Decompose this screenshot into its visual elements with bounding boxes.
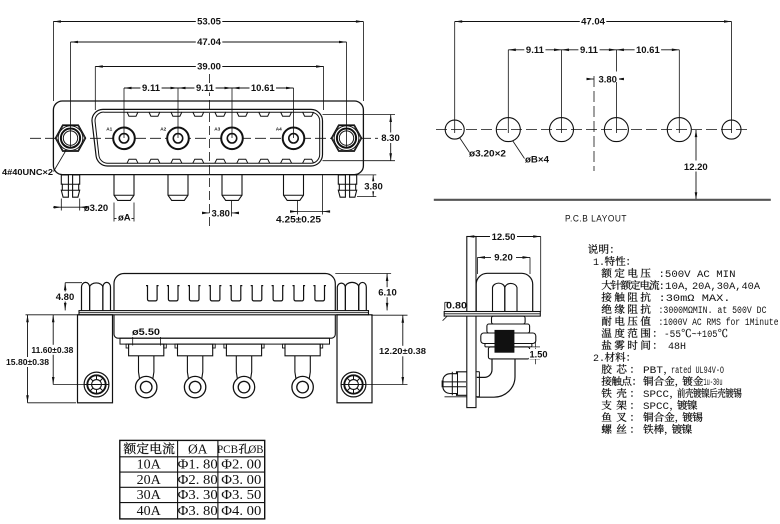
pcb hole B1 xyxy=(496,118,520,142)
power contact A3 with label xyxy=(221,128,243,150)
side view pin 4 with solder eye xyxy=(285,344,320,356)
svg-text:3.80: 3.80 xyxy=(364,182,383,193)
svg-text:30A: 30A xyxy=(137,488,162,503)
dimension 3.80 right fork xyxy=(357,174,376,176)
svg-text:11.60±0.38: 11.60±0.38 xyxy=(31,345,73,355)
svg-text::500V AC MIN: :500V AC MIN xyxy=(659,270,736,281)
svg-text:ø5.50: ø5.50 xyxy=(132,327,160,338)
power contact A4 with label xyxy=(283,128,305,150)
svg-text:4.25±0.25: 4.25±0.25 xyxy=(276,214,322,225)
svg-text:15.80±0.38: 15.80±0.38 xyxy=(6,357,49,367)
pcb mounting hole left xyxy=(445,120,464,139)
svg-text:SPCC: SPCC xyxy=(643,390,669,401)
svg-text:A1: A1 xyxy=(106,127,112,132)
side view contact slot 1 xyxy=(146,286,159,301)
side view insulator lip xyxy=(120,338,330,344)
side view pin 3 with solder eye xyxy=(226,344,261,356)
solder pin below contact at x=178.0 (front view) xyxy=(168,175,188,201)
svg-text:Φ2. 80: Φ2. 80 xyxy=(178,472,218,487)
dimension diameter A under first pin xyxy=(113,203,115,222)
dimension 12.20 +-0.38 right xyxy=(371,314,408,316)
svg-text:PBT: PBT xyxy=(643,366,663,377)
table current rating xyxy=(120,440,265,519)
svg-text:Φ2. 00: Φ2. 00 xyxy=(221,457,261,472)
svg-text:rated UL94V-O: rated UL94V-O xyxy=(671,365,724,377)
svg-text:Φ3. 50: Φ3. 50 xyxy=(221,487,261,502)
svg-text:-55: -55 xyxy=(664,330,681,341)
solder pin below contact at x=124.0 (front view) xyxy=(114,175,134,201)
notes text block xyxy=(588,244,598,254)
front view horizontal dashed centerline xyxy=(30,137,378,139)
svg-text:20A,30A,40A: 20A,30A,40A xyxy=(692,282,760,293)
side view rivet right xyxy=(341,372,366,397)
extension lines shell for 39.00 xyxy=(94,67,96,111)
svg-text:53.05: 53.05 xyxy=(197,17,221,28)
mounting fork left below body xyxy=(61,175,68,197)
svg-text:12.50: 12.50 xyxy=(492,232,516,243)
svg-text:Φ4. 00: Φ4. 00 xyxy=(221,503,261,518)
side view contact slot 6 xyxy=(251,286,264,301)
svg-text:SPCC: SPCC xyxy=(643,402,669,413)
svg-text:ø3.20: ø3.20 xyxy=(84,203,108,214)
pcb extension lines xyxy=(454,22,456,134)
s3 plate foot tab xyxy=(476,371,479,373)
svg-text:20A: 20A xyxy=(137,473,162,488)
pcb dimension 9.11 first xyxy=(508,49,561,51)
s3 bracket plate vertical xyxy=(467,237,476,408)
s3 elbow tube xyxy=(477,359,515,397)
dimension 8.30 right side xyxy=(323,114,396,116)
dimension 47.04 xyxy=(71,41,347,43)
label diameter B x4 with leader xyxy=(513,141,525,159)
side view contact slot 2 xyxy=(167,286,180,301)
side view contact slot 8 xyxy=(293,286,306,301)
extension lines body corners for 53.05 xyxy=(52,22,54,102)
power contact A1 with label xyxy=(113,128,135,150)
svg-text:10.61: 10.61 xyxy=(251,83,275,94)
svg-text::1000V AC RMS for 1Minute: :1000V AC RMS for 1Minute xyxy=(659,317,779,329)
svg-text:ø3.20×2: ø3.20×2 xyxy=(469,149,506,159)
shell grounding slots bottom row xyxy=(127,159,138,163)
s3 flange xyxy=(444,312,540,317)
s3 insulator stack xyxy=(492,316,526,324)
svg-text:~+105: ~+105 xyxy=(692,330,718,341)
dimension diameter 3.20 under left fork xyxy=(60,199,62,211)
front view connector body xyxy=(53,101,363,175)
side view bracket plate right xyxy=(337,315,372,403)
side view contact slot 7 xyxy=(272,286,285,301)
svg-text:4.80: 4.80 xyxy=(56,292,75,303)
svg-text:P.C.B LAYOUT: P.C.B LAYOUT xyxy=(565,214,627,225)
svg-text:PCB: PCB xyxy=(217,444,238,456)
svg-text:1.50: 1.50 xyxy=(530,350,548,361)
svg-text:12.20: 12.20 xyxy=(684,162,708,173)
svg-text:3.80: 3.80 xyxy=(211,209,230,220)
s3 connector shell rear xyxy=(476,273,533,311)
pcb dimension 9.11 second xyxy=(562,49,617,51)
svg-text:Φ1. 80: Φ1. 80 xyxy=(178,457,218,472)
svg-text:10A: 10A xyxy=(137,458,162,473)
side view contact slot 3 xyxy=(188,286,201,301)
svg-text:9.20: 9.20 xyxy=(494,253,513,264)
svg-text:47.04: 47.04 xyxy=(197,37,221,48)
svg-text:0.80: 0.80 xyxy=(446,301,467,312)
side view contact slot 5 xyxy=(230,286,243,301)
s3 solder pin black xyxy=(495,330,515,353)
side view flange xyxy=(79,311,369,315)
pcb hole B4 xyxy=(667,118,691,142)
D-sub shell inner xyxy=(95,112,320,163)
side view insulator body xyxy=(114,315,335,338)
svg-text:Φ3. 00: Φ3. 00 xyxy=(221,472,261,487)
side view contact slot 4 xyxy=(209,286,222,301)
dimension 6.10 xyxy=(335,273,391,275)
svg-text:12.20±0.38: 12.20±0.38 xyxy=(379,346,426,356)
dimension 39.00 xyxy=(95,66,323,68)
s3 screw silhouette xyxy=(493,283,505,311)
svg-text:øA: øA xyxy=(118,212,131,223)
label diameter 3.20 x2 with leader xyxy=(460,138,470,153)
dimension 11.60 +-0.38 xyxy=(26,314,80,316)
s3 dimension 9.20 xyxy=(478,256,531,258)
svg-text:A4: A4 xyxy=(276,127,282,132)
side view screw head right xyxy=(337,283,345,310)
svg-text:1u-30u: 1u-30u xyxy=(704,378,723,389)
side view contact slot 9 xyxy=(313,286,326,301)
svg-text:ØB: ØB xyxy=(249,444,264,456)
dimension 9.11 first xyxy=(124,87,178,89)
solder pin below contact at x=232.0 (front view) xyxy=(222,175,242,201)
dimension 4.25 +-0.25 xyxy=(322,175,324,215)
svg-text::10A: :10A xyxy=(659,282,685,293)
dimension 53.05 xyxy=(53,21,363,23)
svg-text:6.10: 6.10 xyxy=(378,287,397,298)
svg-text:10.61: 10.61 xyxy=(636,45,660,56)
svg-text:Φ3. 30: Φ3. 30 xyxy=(178,487,218,502)
svg-text:9.11: 9.11 xyxy=(196,83,215,94)
dimension 10.61 xyxy=(232,87,294,89)
extension lines from contacts up to pitch dimension xyxy=(123,88,125,138)
s3 fork clip end xyxy=(443,372,467,396)
svg-text:A3: A3 xyxy=(214,127,220,132)
mounting fork right below body xyxy=(338,175,345,197)
side view screw head left xyxy=(82,282,90,310)
svg-text:9.11: 9.11 xyxy=(526,45,545,56)
dimension 3.80 bottom center xyxy=(231,201,233,217)
side view bracket plate left xyxy=(78,315,113,403)
shell grounding slots top row xyxy=(127,112,138,116)
svg-text:1.: 1. xyxy=(593,258,605,269)
dimension 15.80 +-0.38 xyxy=(27,315,29,403)
svg-text::3000MΩMIN. at 500V DC: :3000MΩMIN. at 500V DC xyxy=(659,306,767,317)
side view shell xyxy=(114,274,335,311)
svg-text:4#40UNC×2: 4#40UNC×2 xyxy=(2,167,53,177)
solder pin below contact at x=293.5 (front view) xyxy=(284,175,304,201)
svg-text::30mΩ MAX.: :30mΩ MAX. xyxy=(659,294,731,305)
side view rivet left xyxy=(84,372,109,397)
front view center dashed vertical line xyxy=(209,74,211,228)
svg-text:2.: 2. xyxy=(593,354,605,365)
svg-text:48H: 48H xyxy=(668,342,686,353)
D-sub shell outer xyxy=(92,109,323,166)
side view pin 1 with solder eye xyxy=(129,344,164,356)
svg-text:Φ3. 80: Φ3. 80 xyxy=(178,503,218,518)
pcb hole B2 xyxy=(550,118,574,142)
svg-text:A2: A2 xyxy=(160,127,166,132)
power contact A2 with label xyxy=(167,128,189,150)
pcb dimension 47.04 xyxy=(455,21,732,23)
extension lines hex screws for 47.04 xyxy=(70,42,72,148)
pcb dimension 10.61 xyxy=(616,49,679,51)
hex screw left xyxy=(55,125,85,151)
pcb board edge line xyxy=(434,199,771,201)
hex screw right xyxy=(331,125,361,151)
svg-text:9.11: 9.11 xyxy=(580,45,599,56)
dimension 9.11 second xyxy=(178,87,232,89)
svg-text:40A: 40A xyxy=(137,504,162,519)
table header row xyxy=(124,442,136,454)
svg-text:øB×4: øB×4 xyxy=(525,155,549,165)
svg-text:39.00: 39.00 xyxy=(197,62,221,73)
pcb layout dashed centerline horizontal xyxy=(436,129,751,131)
svg-text:3.80: 3.80 xyxy=(598,75,617,86)
s3 dimension 1.50 xyxy=(532,346,540,348)
dimension 4.80 xyxy=(64,283,66,311)
side view pin 2 with solder eye xyxy=(178,344,213,356)
pcb dimension 12.20 xyxy=(695,130,697,200)
svg-text:8.30: 8.30 xyxy=(381,133,400,144)
svg-text:47.04: 47.04 xyxy=(581,17,605,28)
s3 dimension 0.80 xyxy=(444,302,446,310)
pcb mounting hole right xyxy=(722,120,741,139)
pcb hole B3 xyxy=(604,118,628,142)
s3 dimension 12.50 xyxy=(467,236,541,238)
pcb layout dashed centerline vertical xyxy=(593,76,595,171)
svg-text:9.11: 9.11 xyxy=(142,83,161,94)
pcb dimension 3.80 xyxy=(587,78,595,80)
svg-text:ØA: ØA xyxy=(188,442,208,457)
